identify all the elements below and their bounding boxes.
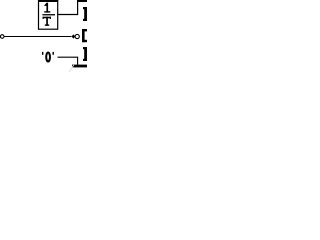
value label '0' constant: right quote <box>53 52 54 55</box>
node label letter I (top) <box>83 7 87 21</box>
wire long horizontal to bubble <box>4 36 71 38</box>
node input-port circle <box>0 35 4 39</box>
node label letter E (middle) <box>82 29 87 42</box>
value label '0' constant: left quote <box>42 52 43 55</box>
value label fraction bar <box>42 14 55 15</box>
bottom block top bar <box>72 65 87 68</box>
wire faint diagonal lead <box>69 65 74 72</box>
value label 1 (numerator) <box>44 3 50 13</box>
value label T (denominator) <box>43 17 51 26</box>
node bubble <box>75 34 79 38</box>
wire from 1/T output up to top edge <box>58 1 87 15</box>
block 1/T gain <box>38 0 58 29</box>
node label letter I (bottom) <box>83 47 87 61</box>
value label '0' constant: digit 0 <box>46 53 50 62</box>
node junction diamond <box>72 34 76 38</box>
wire top edge thick segment <box>77 0 87 2</box>
wire from '0' to bottom bar <box>58 57 78 65</box>
